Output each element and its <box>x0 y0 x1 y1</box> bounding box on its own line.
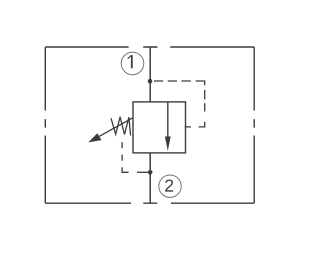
node A junction dot <box>148 79 153 84</box>
envelope bottom border (dashed) <box>45 202 254 204</box>
envelope left border (dashed) <box>44 47 46 203</box>
spring (zigzag) <box>111 117 131 136</box>
node B junction dot <box>148 170 153 175</box>
drain line (dashed) from spring chamber to node B <box>122 142 149 172</box>
wire port 2 vertical line (bottom) <box>149 153 151 203</box>
port label circle 2 <box>159 175 181 197</box>
envelope right border (dashed) <box>253 47 255 203</box>
valve body square <box>133 102 186 153</box>
pilot line (dashed) from node A to valve right side <box>154 81 205 127</box>
adjustment arrow through spring <box>88 118 133 143</box>
wire port 1 vertical line (top) <box>149 47 151 102</box>
port 1 digit <box>128 55 132 68</box>
port label circle 1 <box>121 52 144 75</box>
envelope top border (dashed) <box>45 46 254 48</box>
flow arrow inside valve (closed position) <box>165 102 171 151</box>
port 2 digit <box>165 179 173 191</box>
